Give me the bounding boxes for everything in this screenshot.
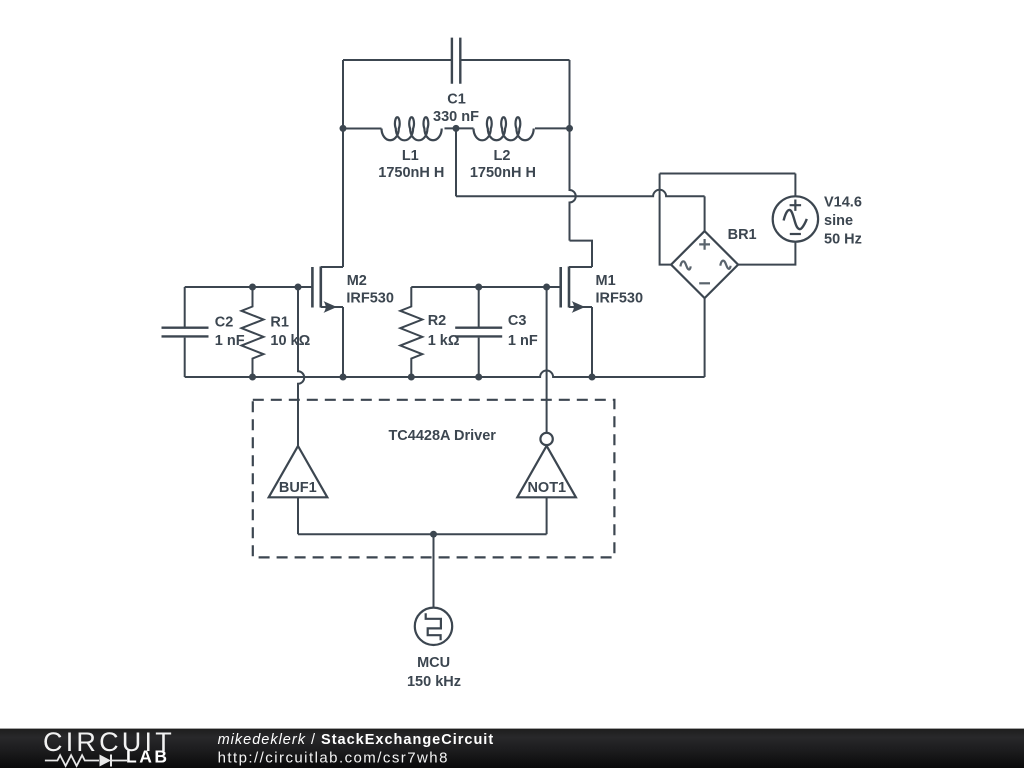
svg-text:1 nF: 1 nF — [508, 333, 538, 349]
svg-text:1 nF: 1 nF — [215, 333, 245, 349]
svg-text:http://circuitlab.com/csr7wh8: http://circuitlab.com/csr7wh8 — [218, 749, 449, 766]
svg-text:C3: C3 — [508, 313, 527, 329]
svg-text:M2: M2 — [347, 273, 367, 289]
svg-text:C2: C2 — [215, 314, 234, 330]
svg-text:330 nF: 330 nF — [433, 109, 479, 125]
svg-text:sine: sine — [824, 213, 853, 229]
svg-text:1750nH H: 1750nH H — [470, 165, 536, 181]
svg-text:IRF530: IRF530 — [596, 290, 644, 306]
svg-text:NOT1: NOT1 — [527, 480, 566, 496]
svg-text:10 kΩ: 10 kΩ — [270, 333, 310, 349]
svg-text:BR1: BR1 — [728, 227, 757, 243]
svg-text:150 kHz: 150 kHz — [407, 674, 461, 690]
svg-text:R1: R1 — [270, 314, 289, 330]
svg-text:TC4428A Driver: TC4428A Driver — [388, 428, 496, 444]
svg-text:M1: M1 — [596, 273, 616, 289]
svg-text:50 Hz: 50 Hz — [824, 232, 862, 248]
svg-text:MCU: MCU — [417, 655, 450, 671]
svg-text:1 kΩ: 1 kΩ — [428, 333, 460, 349]
svg-text:IRF530: IRF530 — [346, 290, 394, 306]
svg-text:V14.6: V14.6 — [824, 195, 862, 211]
svg-text:L2: L2 — [494, 148, 511, 164]
svg-text:BUF1: BUF1 — [279, 480, 317, 496]
svg-text:C1: C1 — [447, 91, 466, 107]
svg-text:R2: R2 — [428, 313, 447, 329]
svg-text:mikedeklerk / StackExchangeCir: mikedeklerk / StackExchangeCircuit — [218, 732, 495, 748]
svg-text:LAB: LAB — [126, 747, 169, 767]
svg-text:L1: L1 — [402, 148, 419, 164]
svg-text:1750nH H: 1750nH H — [378, 165, 444, 181]
